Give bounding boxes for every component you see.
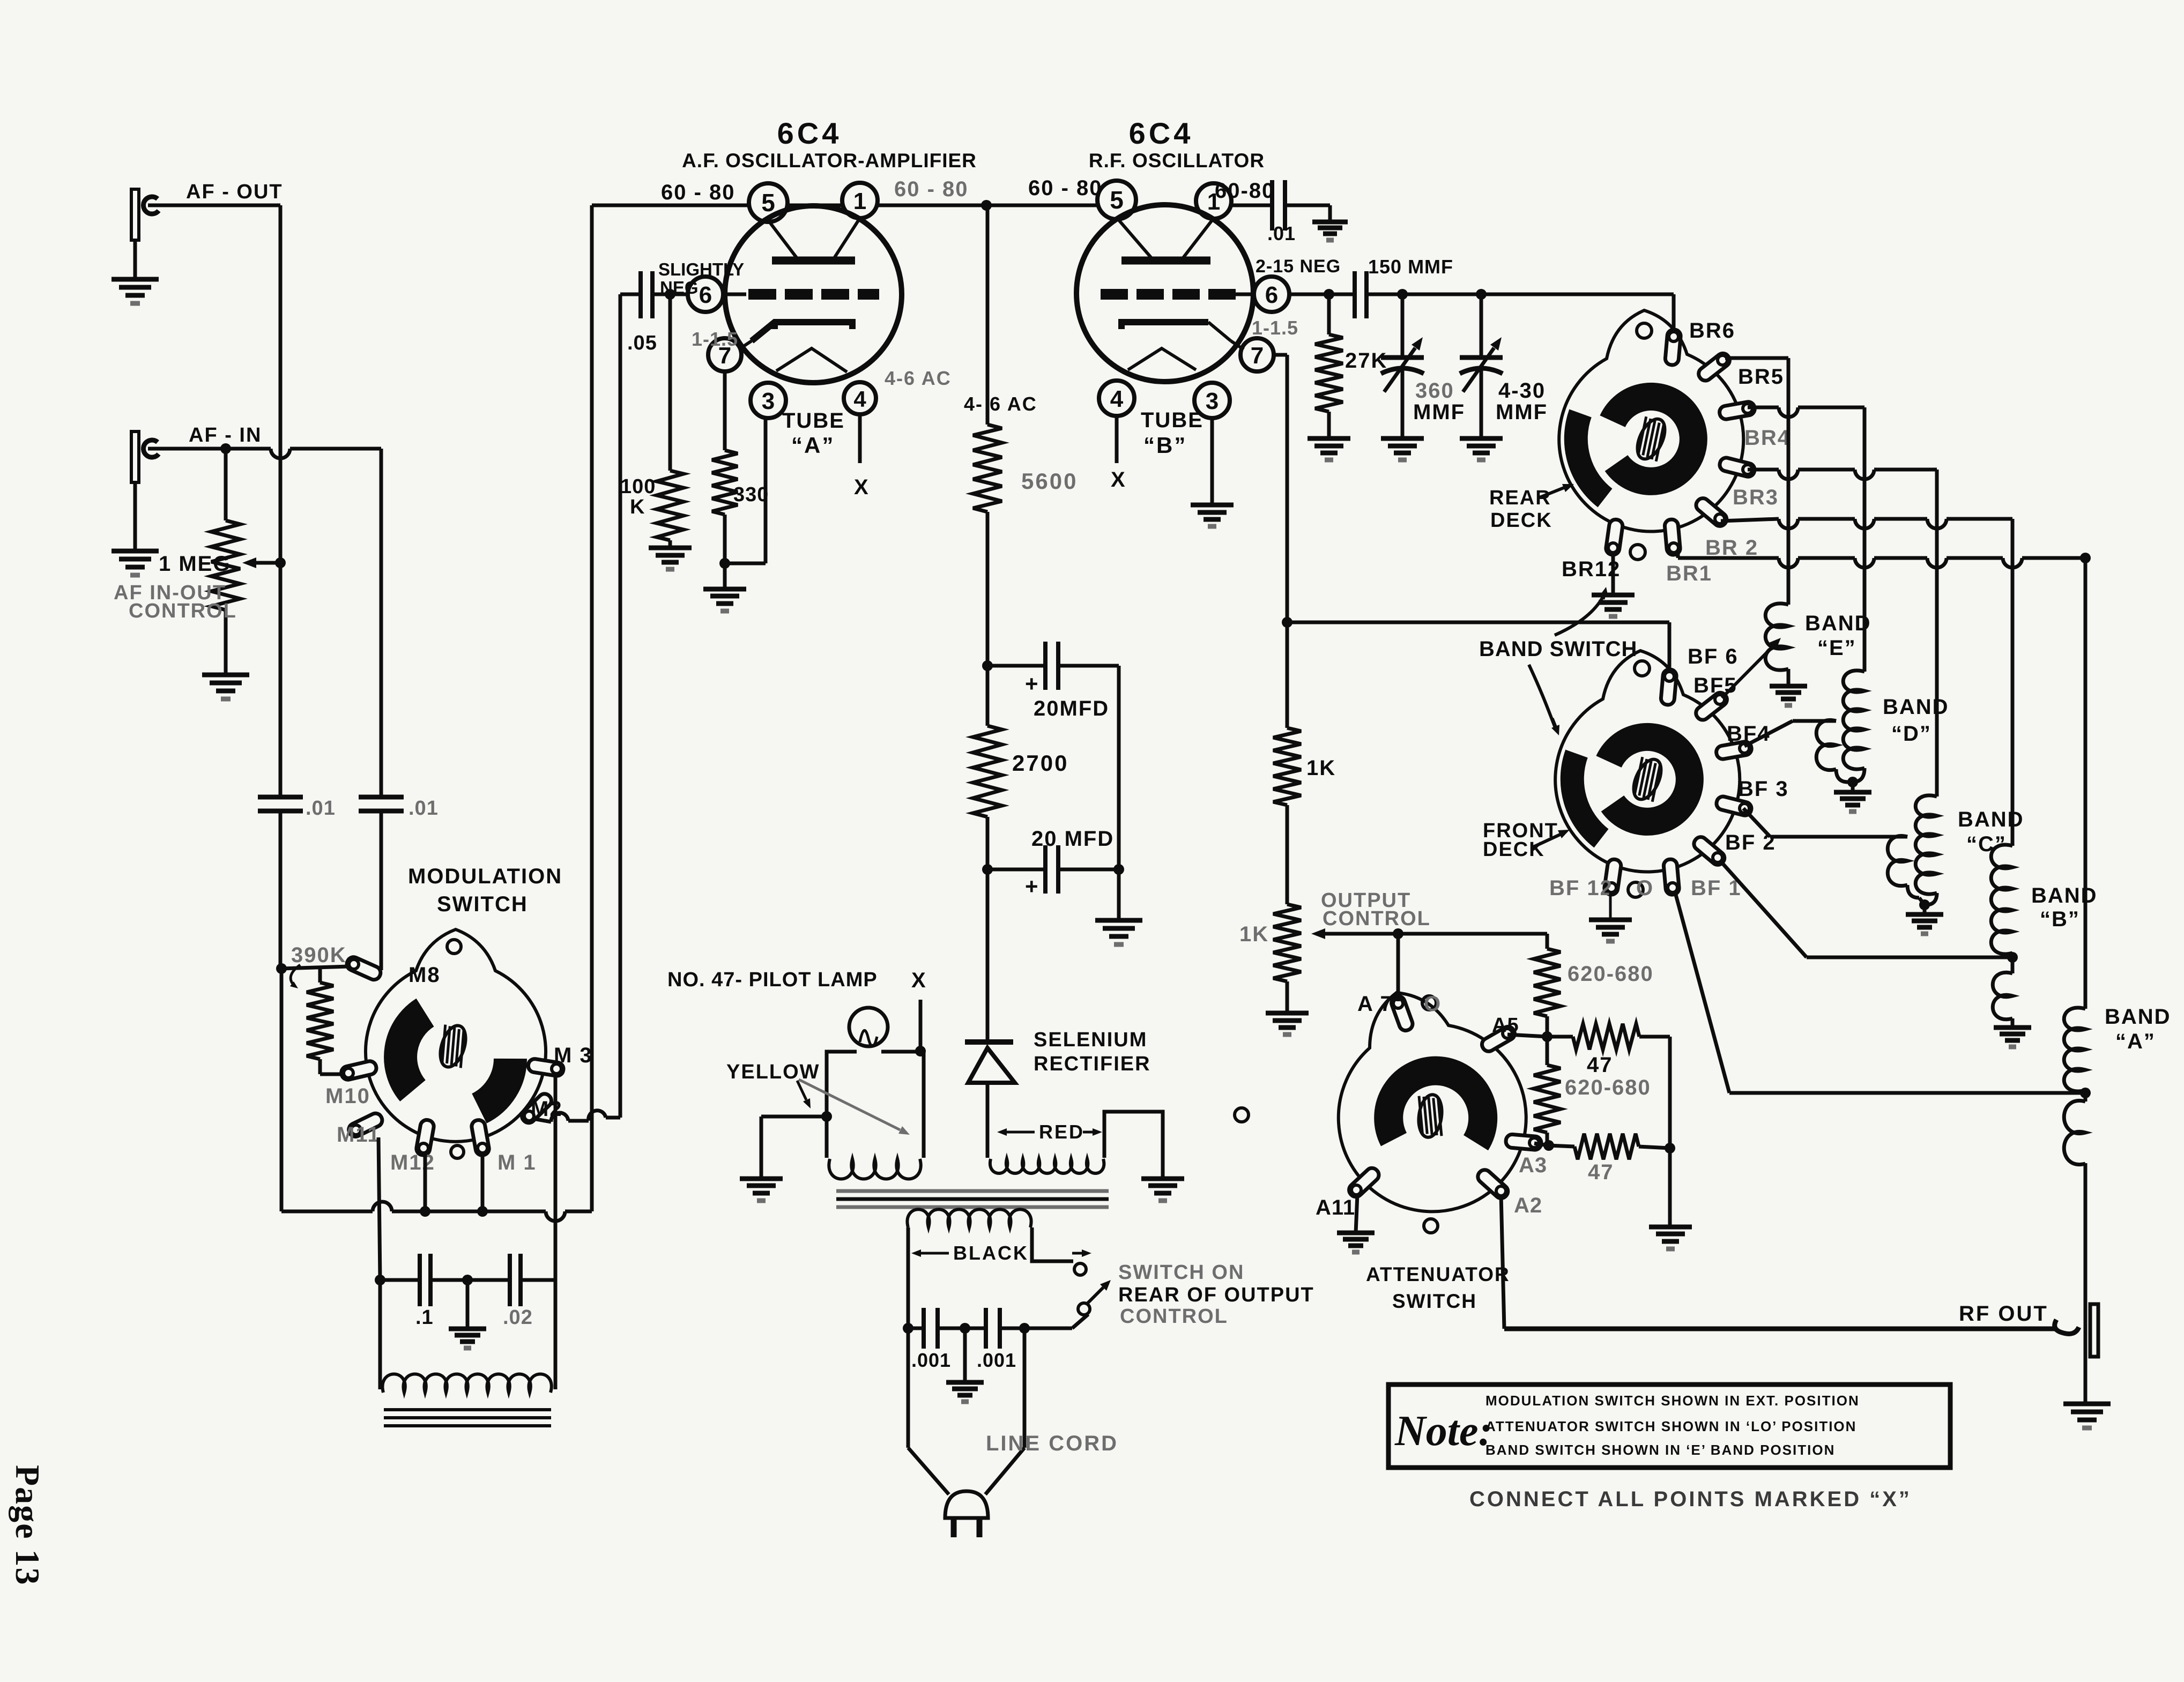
node A3 node: [1543, 1140, 1554, 1151]
svg-text:60-80: 60-80: [1215, 179, 1275, 203]
wire 100K drop: [668, 294, 672, 471]
power switch S1: [1074, 1263, 1086, 1275]
wire BF3 to C tap: [1743, 808, 1770, 837]
coil Band D tap: [1816, 720, 1836, 770]
wire V2 pin6 net b: [1366, 293, 1674, 296]
svg-text:.01: .01: [1267, 222, 1296, 244]
front deck hole bottom: [1628, 882, 1643, 897]
svg-text:.001: .001: [911, 1349, 951, 1371]
wire 47a to corner: [1547, 1035, 1573, 1039]
wire B+ run left: [280, 969, 284, 1211]
wire BF12 ground: [1609, 891, 1612, 920]
wire 20MFD1 right: [1058, 664, 1119, 668]
jack J2 AF-IN: [131, 431, 139, 482]
lug BF6: [1660, 669, 1677, 705]
note box: [1388, 1385, 1950, 1468]
wire cap row b: [430, 1278, 467, 1282]
svg-text:360: 360: [1415, 379, 1454, 403]
svg-text:.1: .1: [415, 1306, 434, 1329]
wire 100K to ground: [668, 540, 672, 548]
wire 47 join to ground: [1668, 1148, 1672, 1227]
wire BR3 row b: [1798, 468, 1855, 472]
wire Band A drop: [2084, 558, 2088, 1009]
svg-text:6: 6: [1265, 282, 1278, 308]
svg-text:“E”: “E”: [1817, 636, 1856, 660]
node Band A junction: [2080, 1088, 2091, 1098]
wire BR1 row: [1676, 552, 1680, 558]
wire hop over M11 line: [373, 1202, 392, 1211]
wire Band E to ground: [1787, 669, 1791, 686]
wire hop BR1 over B: [2003, 558, 2022, 568]
svg-text:BR6: BR6: [1689, 319, 1735, 343]
wire Band A join: [2084, 1089, 2088, 1102]
svg-text:M2: M2: [531, 1097, 563, 1121]
ground A11: [1337, 1231, 1375, 1236]
rear deck switch body: [1559, 310, 1743, 532]
ground BF12: [1589, 918, 1632, 922]
tube V2 cathode: [1121, 322, 1208, 329]
svg-text:AF - OUT: AF - OUT: [186, 181, 283, 203]
tube V2 grid dashes: [1101, 289, 1128, 300]
pin 6 (V1): [688, 277, 723, 312]
svg-text:REAR OF OUTPUT: REAR OF OUTPUT: [1118, 1284, 1314, 1306]
svg-text:2700: 2700: [1012, 750, 1068, 776]
pin 7 (V1): [708, 338, 741, 371]
arrow FRONT DECK: [1531, 835, 1560, 848]
svg-text:BAND SWITCH: BAND SWITCH: [1479, 637, 1637, 661]
rear deck rotor ring: [1613, 397, 1693, 481]
resistor R11 47: [1573, 1024, 1639, 1050]
wire hop BR4 over E: [1779, 407, 1798, 417]
svg-text:4: 4: [853, 386, 866, 412]
lug BR3: [1718, 457, 1756, 478]
node BR1 corner: [2080, 553, 2091, 563]
wire A11 ground: [1356, 1194, 1357, 1233]
wire cap row d: [521, 1278, 555, 1282]
wire M1 stub: [481, 1152, 485, 1211]
node Band B junction: [2007, 952, 2018, 963]
resistor R7 1K: [1273, 728, 1301, 805]
svg-text:R.F. OSCILLATOR: R.F. OSCILLATOR: [1089, 150, 1265, 172]
wire primary right drop: [1023, 1328, 1027, 1448]
node Band C junction: [1919, 899, 1930, 910]
svg-text:BR3: BR3: [1733, 486, 1779, 509]
svg-text:“D”: “D”: [1891, 722, 1932, 746]
svg-text:BAND: BAND: [1883, 695, 1949, 719]
attenuator rotor shaft: [1414, 1093, 1447, 1139]
resistor R2 390K: [318, 969, 322, 983]
node power cap right: [1019, 1323, 1030, 1334]
node 4-30MMF tap: [1476, 289, 1487, 300]
node yellow junction: [821, 1111, 832, 1122]
wire output row corner: [1546, 934, 1549, 949]
ground 330: [703, 587, 746, 592]
svg-text:CONTROL: CONTROL: [129, 600, 237, 622]
svg-text:SLIGHTLY: SLIGHTLY: [658, 259, 744, 279]
rear deck hole bottom: [1630, 545, 1645, 560]
wire M11 down: [378, 1137, 380, 1280]
potentiometer R8 1K output: [1273, 904, 1301, 981]
pilot winding: [829, 1159, 920, 1179]
attenuator stray hole: [1235, 1108, 1249, 1122]
svg-text:X: X: [1111, 468, 1125, 492]
svg-text:1 MEG: 1 MEG: [159, 552, 231, 576]
wire AF-OUT jack sleeve: [133, 240, 137, 279]
wire 5600 top: [986, 205, 990, 425]
wire filter ground stem: [1117, 869, 1121, 920]
wire AF-IN jack sleeve: [133, 482, 137, 551]
svg-text:BF 1: BF 1: [1691, 876, 1742, 900]
ground 27K: [1308, 436, 1350, 441]
resistor R10 620-680: [1534, 949, 1561, 1016]
line cord plug: [945, 1491, 988, 1518]
capacitor C8 .01: [1270, 180, 1274, 230]
ground Band D: [1851, 782, 1855, 792]
wire hop BR1 over E: [1779, 558, 1798, 568]
node V1 grid junction: [665, 289, 675, 300]
wire 5600 to node: [986, 512, 990, 666]
capacitor C5 .05: [638, 271, 643, 318]
tube V1 6C4 envelope: [725, 206, 902, 383]
wire 330 bottom: [723, 515, 727, 563]
wire cap row c: [467, 1278, 510, 1282]
front deck rotor shaft: [1626, 754, 1669, 805]
wire A5 to node: [1507, 1034, 1547, 1037]
coil Band A: [2064, 1008, 2085, 1091]
svg-text:M 3: M 3: [554, 1044, 593, 1067]
node 20MFD lower-right: [1113, 864, 1124, 875]
wiper arrow 1MEG: [256, 561, 280, 565]
wire BF4 to D tap: [1744, 721, 1793, 746]
wire B+ run right: [565, 1210, 592, 1214]
wire power cap row: [908, 1327, 924, 1330]
pilot lamp bulb: [849, 1008, 888, 1046]
svg-text:BAND: BAND: [1805, 612, 1871, 635]
arrow BF5 to Band E: [1722, 646, 1773, 698]
wire BR12 ground: [1611, 551, 1615, 595]
svg-text:M10: M10: [325, 1084, 370, 1108]
coil Band C tap: [1888, 836, 1907, 885]
wire Band B to ground: [2011, 1018, 2015, 1028]
wire M3 down: [554, 1075, 558, 1280]
svg-text:1-1.5: 1-1.5: [692, 328, 738, 350]
secondary winding (red): [990, 1159, 1104, 1173]
node 27K tap: [1324, 289, 1334, 300]
lug M8: [345, 955, 382, 982]
resistor R6 2700: [973, 726, 1002, 817]
wire BR3 row c: [1874, 468, 1937, 472]
wire BF1 to Band A: [1675, 891, 1729, 1093]
wire .05 left: [620, 293, 641, 296]
svg-text:BF 3: BF 3: [1738, 777, 1789, 801]
svg-text:5: 5: [1110, 186, 1124, 214]
wire hop over M3 line: [551, 1113, 568, 1122]
svg-text:47: 47: [1587, 1053, 1613, 1077]
node AF-IN junction: [220, 443, 231, 454]
attenuator hole bottom: [1424, 1219, 1438, 1233]
potentiometer R1 1MEG: [211, 520, 240, 610]
arrow yellow short: [797, 1081, 806, 1100]
svg-text:.01: .01: [306, 797, 336, 820]
wire Band B join: [2011, 953, 2015, 973]
front deck hole top: [1635, 661, 1650, 676]
node A7 tap: [1393, 928, 1403, 939]
wire cap mid ground stem: [466, 1280, 470, 1329]
attenuator rotor arc: [1388, 1071, 1483, 1143]
lug BR2: [1693, 496, 1729, 529]
arrow BAND SWITCH to front: [1529, 665, 1556, 729]
tube V2 plate lead from pin5: [1117, 218, 1154, 261]
svg-text:BLACK: BLACK: [953, 1242, 1029, 1264]
lug BR4: [1719, 401, 1756, 420]
node 20MFD lower-left: [982, 864, 993, 875]
wire BR2 row: [1721, 519, 1779, 521]
resistor R12 620-680 lower: [1534, 1065, 1561, 1133]
node BF6 branch: [1282, 617, 1292, 628]
ground AF-OUT jack: [112, 277, 159, 282]
svg-text:CONNECT ALL POINTS MARKED: CONNECT ALL POINTS MARKED “X”: [1469, 1487, 1912, 1511]
lug BF12: [1603, 859, 1622, 896]
wire 1MEG bottom: [224, 610, 228, 675]
ground attenuator network: [1649, 1225, 1692, 1230]
ground 360MMF: [1381, 436, 1424, 441]
svg-text:4-6 AC: 4-6 AC: [885, 367, 952, 389]
wire to BF6: [1287, 621, 1669, 624]
svg-text:A3: A3: [1519, 1153, 1547, 1177]
resistor R4 330: [712, 450, 738, 515]
ground filter caps: [1095, 918, 1142, 923]
wire pilot X: [919, 1000, 923, 1051]
pin 3 (V1): [751, 383, 786, 418]
selenium rectifier CR1: [986, 869, 990, 1040]
svg-text:“B”: “B”: [1143, 433, 1187, 458]
svg-text:+: +: [1025, 671, 1038, 696]
svg-text:TUBE: TUBE: [782, 409, 845, 433]
modulation switch body: [366, 929, 546, 1142]
wire to A3 node: [1546, 1133, 1549, 1145]
svg-text:390K: 390K: [291, 943, 347, 967]
wire A5 junction: [1546, 1016, 1549, 1065]
wire hop BR2 over C: [1927, 519, 1947, 529]
svg-text:47: 47: [1588, 1160, 1614, 1184]
pin 4 (V1): [844, 382, 876, 414]
ground 100K: [649, 546, 692, 550]
svg-text:BR5: BR5: [1738, 365, 1784, 389]
lug M10: [340, 1060, 377, 1081]
svg-text:“A”: “A”: [791, 433, 835, 458]
node cap row left: [375, 1275, 385, 1285]
modulation rotor arc left: [400, 1013, 425, 1091]
lug BF1: [1663, 859, 1680, 895]
wiper arrow output control: [1325, 932, 1372, 936]
ground pilot: [740, 1177, 783, 1181]
svg-text:M11: M11: [337, 1123, 381, 1147]
wire 27K to ground: [1327, 412, 1331, 438]
arrow REAR DECK: [1540, 488, 1564, 497]
svg-text:NO. 47- PILOT LAMP: NO. 47- PILOT LAMP: [667, 969, 878, 991]
svg-text:BAND: BAND: [2031, 884, 2098, 907]
wire 20MFD2 right: [1058, 868, 1119, 872]
ground Band A / RF jack: [2063, 1402, 2111, 1406]
wire power cap row c: [1000, 1327, 1072, 1330]
svg-text:1: 1: [853, 188, 866, 214]
svg-text:620-680: 620-680: [1568, 962, 1654, 986]
svg-text:6: 6: [699, 282, 712, 308]
node 330/pin3 junction: [719, 558, 730, 569]
ground Band C: [1923, 905, 1927, 914]
variable capacitor C10 360MMF: [1401, 294, 1405, 358]
svg-text:3: 3: [1206, 388, 1219, 414]
lug BF3: [1715, 795, 1752, 817]
arrow 390K pointer: [291, 965, 300, 985]
wire BF2 to Band B: [1720, 860, 1807, 957]
line cord entry: [908, 1448, 949, 1494]
svg-text:A 7: A 7: [1357, 992, 1393, 1016]
wire V1 pin7 down: [723, 371, 727, 450]
wire output control row: [1362, 932, 1547, 936]
svg-text:27K: 27K: [1345, 349, 1387, 373]
tube V1 plate lead from pin1: [833, 218, 860, 261]
svg-text:DECK: DECK: [1483, 838, 1545, 861]
svg-text:“A”: “A”: [2115, 1030, 2156, 1053]
wire BR2 row b: [1798, 517, 1855, 521]
arrow BAND SWITCH to rear: [1555, 594, 1604, 635]
svg-text:MODULATION: MODULATION: [408, 865, 562, 888]
wire 390K top row: [281, 966, 350, 969]
tube V1 plate: [772, 257, 855, 265]
svg-text:SWITCH ON: SWITCH ON: [1118, 1261, 1244, 1284]
pin 1 (V1): [842, 183, 878, 218]
wire V2 pin7 to rail: [1274, 353, 1287, 357]
attenuator hole top: [1422, 996, 1436, 1010]
svg-text:BR 2: BR 2: [1705, 536, 1758, 560]
wire mod xfmr left: [378, 1280, 382, 1389]
wire B+ rail (tube A feed): [590, 205, 594, 1211]
wire 1MEG top: [224, 449, 228, 520]
svg-text:4- 6 AC: 4- 6 AC: [964, 393, 1037, 415]
wire Band A to ground: [2084, 1163, 2088, 1404]
lug M3: [528, 1058, 564, 1077]
lug BR1: [1664, 519, 1681, 555]
wire hop BR3 over E: [1779, 470, 1798, 479]
svg-text:M8: M8: [408, 963, 441, 987]
wire BR2 row d: [1947, 517, 2012, 521]
node 360MMF tap: [1397, 289, 1408, 300]
lug A11: [1347, 1165, 1381, 1199]
wire BR1 row b: [1798, 556, 1855, 560]
wire C8 to ground: [1285, 204, 1330, 207]
node 20MFD upper: [982, 660, 993, 671]
wire primary right: [1032, 1227, 1073, 1261]
wire Band C bottom: [1926, 893, 1937, 905]
label BLACK arrows: [921, 1252, 949, 1255]
node power cap mid: [960, 1323, 970, 1334]
svg-text:BF 12: BF 12: [1549, 876, 1613, 900]
lug BF4: [1715, 741, 1752, 760]
capacitor C7 20MFD: [1043, 845, 1048, 894]
svg-text:620-680: 620-680: [1565, 1076, 1651, 1099]
svg-text:ATTENUATOR SWITCH SHOWN IN: ATTENUATOR SWITCH SHOWN IN ‘LO’ POSITION: [1485, 1418, 1856, 1434]
wire hop over B+ rail: [589, 1111, 606, 1121]
pin 1 (V2): [1196, 183, 1231, 219]
jack J1 AF-OUT: [131, 189, 139, 240]
capacitor C1 .01: [258, 795, 303, 800]
wire rail to 1K: [1286, 622, 1289, 728]
wire hop over AF-OUT rail: [271, 449, 290, 458]
svg-text:60 - 80: 60 - 80: [1028, 176, 1103, 200]
tube V2 cathode lead: [1231, 341, 1244, 349]
svg-text:K: K: [630, 496, 645, 518]
wire yellow to ground: [761, 1115, 827, 1119]
wire grid rail to M2 b: [568, 1119, 589, 1123]
svg-text:4: 4: [1110, 386, 1124, 412]
wire BR6 drop: [1672, 294, 1676, 346]
wire grid rail to M2 a: [606, 1116, 620, 1120]
variable capacitor C11 4-30MMF: [1480, 294, 1483, 358]
wire BR3 row: [1748, 468, 1779, 472]
wire dip under M3 line: [546, 1211, 565, 1221]
wire cap row a: [380, 1278, 420, 1282]
front deck outer arc: [1572, 754, 1601, 838]
wire switch to cap row: [1072, 1314, 1088, 1328]
rear deck hole top: [1637, 323, 1652, 338]
pilot lamp frame: [827, 1052, 857, 1158]
wire 2700 bottom: [986, 817, 990, 869]
wire power cap row b: [938, 1327, 986, 1330]
resistor R5 5600: [973, 425, 1002, 512]
wire junction to ground: [723, 563, 727, 589]
svg-text:20 MFD: 20 MFD: [1031, 827, 1114, 851]
ground BR12: [1592, 593, 1635, 598]
wire V2 pin4 down: [1115, 416, 1119, 463]
wire 1K to pot: [1286, 805, 1289, 904]
wire grid rail to M2 c: [536, 1119, 551, 1122]
rear deck rotor shaft: [1630, 414, 1673, 464]
wire A2 to RF OUT: [1501, 1194, 1504, 1329]
wire below C1: [279, 811, 283, 969]
ground M-switch caps: [449, 1327, 486, 1331]
capacitor C9 150MMF: [1353, 271, 1357, 318]
svg-text:CONTROL: CONTROL: [1120, 1305, 1228, 1328]
ground Band B: [1994, 1025, 2031, 1030]
wire M12 stub: [424, 1152, 427, 1211]
mod transformer winding: [382, 1374, 551, 1393]
wire hop BR2 over D: [1855, 519, 1874, 529]
tube V2 plate: [1121, 257, 1210, 265]
wire B+ run mid: [392, 1210, 546, 1214]
svg-text:Page 13: Page 13: [9, 1465, 47, 1586]
svg-text:.001: .001: [977, 1349, 1016, 1371]
node cap row mid: [462, 1275, 473, 1285]
svg-text:2-15 NEG: 2-15 NEG: [1256, 256, 1341, 277]
coil Band B: [1991, 845, 2012, 954]
wire BR1 row c: [1874, 556, 1927, 560]
tube V1 heater: [776, 348, 847, 372]
svg-text:5600: 5600: [1021, 468, 1078, 494]
svg-text:ATTENUATOR: ATTENUATOR: [1366, 1263, 1510, 1285]
svg-text:3: 3: [762, 388, 775, 414]
tube V1 plate lead from pin5: [768, 220, 799, 261]
node M1 stub: [477, 1206, 488, 1217]
svg-text:1K: 1K: [1306, 756, 1336, 780]
lug BR6: [1665, 329, 1681, 366]
svg-text:BR1: BR1: [1666, 562, 1712, 585]
wire Band D bottom: [1853, 768, 1864, 782]
svg-text:LINE CORD: LINE CORD: [986, 1432, 1118, 1455]
wire top B+ run: [592, 204, 749, 207]
svg-text:330: 330: [733, 483, 769, 506]
wire RF jack sleeve: [2084, 1357, 2088, 1404]
